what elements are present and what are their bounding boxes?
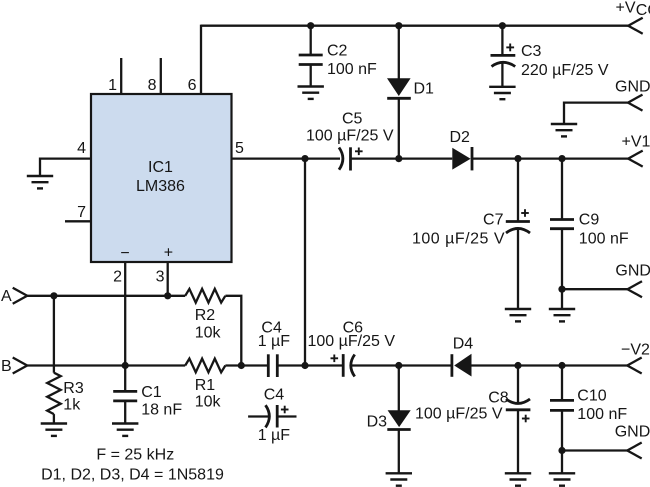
svg-text:IC1: IC1 bbox=[148, 159, 173, 176]
svg-text:220 µF/25 V: 220 µF/25 V bbox=[521, 62, 609, 79]
capacitor C2 bbox=[299, 26, 323, 87]
node: junction riser / B row bbox=[301, 362, 308, 369]
pin 3 wire bbox=[167, 262, 169, 296]
svg-text:5: 5 bbox=[235, 140, 244, 157]
node: junction C10 line / GND tap bbox=[558, 447, 565, 454]
node: junction C9 line / GND tap bbox=[558, 286, 565, 293]
label C2 value bbox=[327, 43, 377, 79]
node: junction C9 / +V1 row bbox=[558, 155, 565, 162]
wire: R2 to B row elbow bbox=[225, 296, 241, 366]
wire: D2 to +V1 connector bbox=[472, 157, 628, 159]
svg-text:6: 6 bbox=[188, 77, 197, 94]
svg-text:7: 7 bbox=[77, 204, 86, 221]
svg-text:2: 2 bbox=[113, 269, 122, 286]
node: junction C7 / +V1 row bbox=[514, 155, 521, 162]
svg-text:100 µF/25 V: 100 µF/25 V bbox=[412, 231, 505, 248]
wire: GND bottom tap bbox=[562, 449, 627, 451]
svg-text:4: 4 bbox=[77, 140, 86, 157]
connector GND mid right bbox=[628, 281, 643, 297]
svg-text:A: A bbox=[1, 288, 12, 305]
ground: pin 4 bbox=[27, 176, 53, 188]
ground: below C3 bbox=[489, 87, 515, 99]
pin 2 wire bbox=[124, 262, 126, 366]
wire: R1 to C4 bbox=[225, 364, 268, 366]
svg-text:GND: GND bbox=[615, 79, 650, 96]
pin 4 wire bbox=[40, 159, 91, 176]
svg-text:10k: 10k bbox=[195, 394, 222, 411]
capacitor C3 bbox=[491, 26, 516, 87]
node: junction D1 bottom / +V1 row bbox=[395, 155, 402, 162]
svg-text:100 nF: 100 nF bbox=[577, 406, 627, 423]
diode D2 bbox=[452, 147, 472, 170]
node: junction D1 / top rail bbox=[395, 22, 402, 29]
svg-text:C10: C10 bbox=[577, 388, 606, 405]
label C8 value bbox=[415, 390, 509, 423]
svg-text:−: − bbox=[120, 245, 129, 262]
node: junction R1-R2 / B row bbox=[238, 362, 245, 369]
ground: top right bbox=[551, 124, 577, 136]
svg-text:+: + bbox=[164, 245, 173, 262]
svg-text:100 µF/25 V: 100 µF/25 V bbox=[415, 406, 503, 423]
connector +V1 bbox=[628, 151, 643, 167]
svg-text:C7: C7 bbox=[483, 212, 504, 229]
capacitor C1 bbox=[113, 366, 137, 424]
svg-text:8: 8 bbox=[148, 77, 157, 94]
node: junction C3 / top rail bbox=[499, 22, 506, 29]
diode D4 bbox=[452, 354, 472, 377]
capacitor C7 bbox=[506, 159, 530, 309]
node: junction C10 / -V2 row bbox=[558, 362, 565, 369]
svg-text:GND: GND bbox=[615, 424, 650, 441]
wire: GND top right to ground bbox=[564, 103, 628, 124]
ground: below C7 bbox=[505, 309, 531, 321]
ground: below D3 bbox=[386, 473, 412, 485]
pin 8 stub bbox=[160, 58, 162, 94]
svg-text:CC: CC bbox=[636, 2, 650, 19]
ground: below R3 bbox=[41, 424, 67, 436]
wire: GND mid tap bbox=[562, 288, 628, 290]
svg-text:D2: D2 bbox=[450, 129, 471, 146]
svg-text:C3: C3 bbox=[521, 43, 542, 60]
capacitor C8 bbox=[506, 366, 531, 474]
label R2 value bbox=[195, 307, 222, 342]
svg-text:3: 3 bbox=[156, 269, 165, 286]
label C9 value bbox=[579, 212, 629, 248]
pin 7 stub bbox=[65, 220, 91, 222]
node: junction A / pin 3 bbox=[164, 292, 171, 299]
svg-text:D4: D4 bbox=[453, 336, 474, 353]
svg-text:D1, D2, D3, D4 = 1N5819: D1, D2, D3, D4 = 1N5819 bbox=[41, 467, 224, 484]
wire: pin 6 riser to top rail bbox=[200, 25, 202, 94]
node: junction A / R3 bbox=[50, 292, 57, 299]
pin 1 stub bbox=[120, 58, 122, 94]
label C10 value bbox=[577, 388, 627, 424]
svg-text:100 µF/25 V: 100 µF/25 V bbox=[308, 333, 396, 350]
ground: below C8 bbox=[505, 473, 531, 485]
svg-text:D3: D3 bbox=[367, 414, 388, 431]
node: junction pin5 row / riser bbox=[301, 155, 308, 162]
diode D1 bbox=[387, 26, 411, 159]
svg-text:R1: R1 bbox=[195, 377, 216, 394]
svg-text:LM386: LM386 bbox=[136, 178, 185, 195]
label C3 value bbox=[521, 43, 609, 79]
svg-text:100 nF: 100 nF bbox=[579, 231, 629, 248]
svg-text:1 µF: 1 µF bbox=[258, 333, 291, 350]
svg-text:1: 1 bbox=[108, 77, 117, 94]
svg-text:1k: 1k bbox=[63, 397, 81, 414]
capacitor C4 bbox=[268, 354, 277, 377]
svg-text:C5: C5 bbox=[342, 111, 363, 128]
label C1 value bbox=[141, 384, 182, 419]
wire: C5 to D2 bbox=[351, 157, 453, 159]
svg-text:100 nF: 100 nF bbox=[327, 61, 377, 78]
wire: D4 to -V2 connector bbox=[472, 364, 628, 366]
svg-text:10k: 10k bbox=[195, 325, 222, 342]
capacitor C6 bbox=[331, 354, 355, 377]
svg-text:+V1: +V1 bbox=[622, 134, 650, 151]
capacitor C9 bbox=[550, 159, 574, 309]
wire: pin 5 to C5 bbox=[232, 157, 341, 159]
svg-text:+V: +V bbox=[616, 0, 636, 16]
wire: A row bbox=[27, 295, 185, 297]
svg-text:18 nF: 18 nF bbox=[141, 402, 182, 419]
node: junction B / pin 2 / C1 bbox=[122, 362, 129, 369]
connector GND top right bbox=[628, 95, 643, 111]
svg-text:R3: R3 bbox=[63, 380, 84, 397]
node: junction D3 / B row bbox=[395, 362, 402, 369]
wire: C4 to C6 bbox=[277, 364, 343, 366]
svg-text:C8: C8 bbox=[488, 390, 509, 407]
label C7 value bbox=[412, 212, 505, 248]
svg-text:C2: C2 bbox=[327, 43, 348, 60]
label C4 value bbox=[258, 320, 291, 351]
wire: riser from pin5 row down to B row bbox=[304, 159, 306, 366]
svg-text:1 µF: 1 µF bbox=[258, 427, 291, 444]
node: junction C2 / top rail bbox=[307, 22, 314, 29]
capacitor C10 bbox=[550, 366, 574, 474]
connector GND bottom right bbox=[627, 443, 642, 459]
label +VCC bbox=[616, 0, 650, 19]
ground: below C2 bbox=[298, 87, 324, 99]
wire: +Vcc top rail bbox=[201, 25, 628, 27]
wire: B row to R1 bbox=[27, 364, 185, 366]
svg-text:R2: R2 bbox=[195, 307, 216, 324]
resistor R1 bbox=[185, 359, 225, 373]
ground: below C10 bbox=[549, 473, 575, 485]
label R1 value bbox=[195, 377, 222, 411]
connector B bbox=[13, 358, 28, 374]
label R3 value bbox=[63, 380, 84, 414]
capacitor C4 alternate polarized bbox=[248, 405, 296, 428]
resistor R2 bbox=[185, 289, 225, 303]
label C4 alternate value bbox=[258, 387, 291, 445]
label C5 value bbox=[306, 111, 394, 145]
svg-text:GND: GND bbox=[615, 263, 650, 280]
svg-text:C9: C9 bbox=[579, 212, 600, 229]
label C6 value bbox=[308, 320, 396, 351]
resistor R3 bbox=[47, 296, 61, 424]
svg-text:B: B bbox=[1, 358, 12, 375]
connector +VCC bbox=[628, 18, 643, 34]
op-amp IC1 LM386 body bbox=[91, 94, 232, 262]
connector A bbox=[13, 288, 28, 304]
svg-text:C4: C4 bbox=[264, 387, 285, 404]
wire: C6 to D4 bbox=[352, 364, 452, 366]
ground: below C9 bbox=[549, 309, 575, 321]
node: junction C8 / -V2 row bbox=[514, 362, 521, 369]
capacitor C5 bbox=[339, 147, 363, 170]
diode D3 bbox=[387, 366, 410, 474]
ground: below C1 bbox=[112, 424, 138, 436]
svg-text:100 µF/25 V: 100 µF/25 V bbox=[306, 128, 394, 145]
svg-text:D1: D1 bbox=[414, 81, 435, 98]
svg-text:F = 25 kHz: F = 25 kHz bbox=[96, 447, 174, 464]
connector -V2 bbox=[627, 358, 642, 374]
svg-text:C1: C1 bbox=[141, 384, 162, 401]
svg-text:−V2: −V2 bbox=[621, 342, 650, 359]
